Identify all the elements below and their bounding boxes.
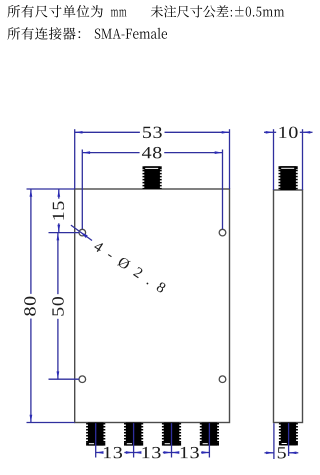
header line2 CJK: connectors note	[7, 27, 20, 39]
dimension 53	[75, 131, 140, 133]
dimension 13 (#2)	[134, 452, 140, 454]
dimension 5 (outside arrows)	[265, 452, 274, 454]
dimension 53 extension lines	[74, 129, 76, 189]
input SMA connector J1 (top, front view)	[144, 166, 160, 189]
dimension 15 (top edge to hole row)	[58, 189, 60, 199]
SMA connector top, side view	[280, 166, 296, 190]
side view body outline	[274, 190, 303, 423]
dimension 80 (body height)	[30, 189, 32, 294]
output SMA connector (bottom #1, front view)	[88, 423, 104, 446]
mounting hole bottom-right	[219, 376, 226, 383]
mounting hole top-left	[79, 229, 86, 236]
hole callout leader arrowhead	[80, 232, 87, 238]
extension line at body top-left	[27, 188, 75, 190]
output SMA connector (bottom #3, front view)	[164, 423, 180, 446]
SMA connector bottom, side view	[281, 423, 296, 446]
output SMA connector (bottom #2, front view)	[126, 423, 142, 446]
dimension 48 extension lines	[81, 150, 83, 230]
front view body outline	[75, 189, 230, 423]
hole callout text 4-Ø2.8	[93, 240, 167, 293]
dimension 13 (#3)	[172, 452, 178, 454]
extension line at top hole row	[49, 232, 80, 234]
dimension 48	[82, 152, 139, 154]
dimension 10 extension lines	[273, 129, 275, 190]
dimension 10 (outside arrows)	[264, 131, 274, 133]
extension line at body bottom-left	[27, 422, 75, 424]
mounting hole bottom-left	[79, 376, 86, 383]
hole callout leader line	[71, 225, 92, 240]
extension line at bottom hole row	[49, 378, 80, 380]
header line1 CJK: units note	[7, 5, 20, 17]
dimension 50 (hole row spacing)	[57, 233, 59, 295]
dimension 13 extension lines through connectors	[95, 423, 97, 457]
dimension 13 (#1)	[96, 452, 101, 454]
output SMA connector (bottom #4, front view)	[202, 423, 218, 446]
mounting hole top-right	[219, 229, 226, 236]
dimension 5 extension lines	[273, 423, 275, 459]
